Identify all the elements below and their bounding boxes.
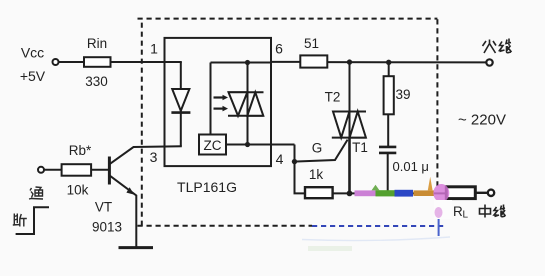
- svg-text:Vcc: Vcc: [21, 45, 44, 61]
- svg-text:VT: VT: [95, 200, 112, 215]
- node junction dot top of photo-triac: [245, 60, 250, 65]
- label Vcc +5V: [20, 45, 46, 85]
- label neutral wire (zhong xian): [480, 205, 506, 218]
- wire pin 6 to resistor 51: [271, 61, 300, 63]
- svg-text:1: 1: [150, 41, 158, 57]
- zero-cross block ZC: [199, 135, 226, 155]
- photo-triac center lead: [247, 63, 249, 145]
- LED D1 inside optocoupler: [171, 62, 190, 146]
- label live wire (huo xian): [483, 39, 512, 54]
- wire Rin to LED anode (pin 1): [111, 61, 182, 63]
- resistor RL: [446, 187, 475, 199]
- svg-text:T2: T2: [325, 90, 341, 105]
- watermark blue segment: [395, 190, 414, 197]
- svg-text:L: L: [463, 210, 469, 221]
- node junction dot bottom of photo-triac: [245, 142, 250, 147]
- svg-text:+5V: +5V: [20, 68, 46, 84]
- watermark violet segment: [355, 190, 376, 196]
- ground: [119, 246, 154, 249]
- collector wire to pin 3: [110, 146, 182, 164]
- photo-triac symbol: [228, 92, 264, 116]
- svg-text:51: 51: [304, 36, 319, 51]
- transistor VT 9013: [109, 146, 181, 247]
- capacitor C1 0.01u: [379, 147, 429, 194]
- svg-text:~ 220V: ~ 220V: [458, 112, 506, 129]
- resistor 51: [300, 36, 327, 68]
- resistor 39: [384, 62, 411, 114]
- node junction 39 top: [386, 60, 391, 65]
- light arrow 1: [214, 95, 229, 101]
- svg-text:9013: 9013: [92, 220, 122, 235]
- dashed module boundary box: [138, 19, 438, 226]
- svg-text:3: 3: [150, 149, 158, 165]
- svg-text:Rb*: Rb*: [69, 143, 92, 158]
- svg-text:1k: 1k: [309, 167, 324, 182]
- svg-text:0.01 μ: 0.01 μ: [393, 159, 429, 174]
- node junction triac top: [347, 59, 352, 64]
- triac bottom lead: [348, 138, 351, 194]
- wire Rb to base: [91, 169, 108, 171]
- label duan (off): [13, 214, 27, 227]
- label tong (on): [29, 187, 43, 199]
- node terminal neutral: [488, 190, 494, 196]
- resistor 1k: [305, 167, 333, 198]
- svg-text:330: 330: [85, 74, 108, 89]
- svg-text:G: G: [312, 141, 323, 156]
- svg-text:R: R: [453, 204, 463, 219]
- step waveform symbol: [16, 207, 49, 234]
- watermark orange segment: [414, 190, 435, 196]
- wire input to Rb: [44, 169, 62, 171]
- wire 1k to load node: [333, 192, 447, 194]
- photo-triac top rail wire: [211, 62, 272, 64]
- wire RL to neutral terminal: [475, 192, 487, 194]
- svg-text:ZC: ZC: [204, 138, 222, 153]
- watermark faint arc: [302, 237, 450, 241]
- light arrow 2: [214, 106, 229, 112]
- watermark blue dashes on bottom boundary: [312, 225, 446, 227]
- label VT 9013: [92, 200, 122, 235]
- svg-text:TLP161G: TLP161G: [177, 179, 237, 195]
- triac T1 symbol: [332, 112, 366, 138]
- svg-text:Rin: Rin: [87, 36, 107, 51]
- node junction pin4 gate: [292, 159, 297, 164]
- wire Vcc to Rin: [59, 61, 85, 63]
- svg-text:39: 39: [395, 87, 410, 102]
- optocoupler U1 package box: [165, 38, 272, 166]
- emitter wire: [110, 176, 136, 247]
- wire 51 to live terminal: [327, 61, 486, 63]
- node junction triac bottom: [347, 191, 353, 197]
- resistor Rin 330: [84, 36, 111, 89]
- node Vcc terminal: [53, 59, 59, 65]
- gate wire G: [294, 140, 348, 162]
- resistor Rb* 10k: [62, 143, 92, 198]
- label RL: [453, 204, 469, 221]
- svg-text:4: 4: [276, 151, 284, 167]
- node input terminal: [38, 167, 44, 173]
- svg-text:T1: T1: [352, 140, 368, 155]
- node terminal live wire: [486, 59, 492, 65]
- emitter arrow: [126, 187, 134, 194]
- svg-text:6: 6: [275, 41, 283, 57]
- wire pin4 down and to 1k: [295, 145, 306, 194]
- watermark magenta blob: [433, 184, 449, 202]
- watermark green segment: [376, 190, 395, 196]
- wire zc left drop: [210, 63, 212, 135]
- triac T1 top lead: [349, 62, 351, 111]
- base bar: [108, 157, 111, 185]
- svg-text:10k: 10k: [67, 183, 89, 198]
- wire ZC to pin 4 exit: [226, 144, 295, 146]
- wire 39 to capacitor: [387, 114, 389, 146]
